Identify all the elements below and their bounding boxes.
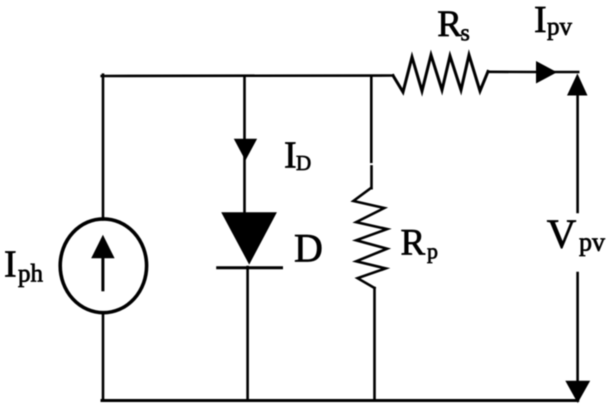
svg-text:I: I bbox=[284, 135, 297, 177]
svg-text:pv: pv bbox=[579, 228, 605, 257]
wire V_pv lower segment bbox=[576, 273, 579, 382]
svg-text:ph: ph bbox=[18, 260, 44, 287]
wire R_p branch lower bbox=[373, 288, 376, 401]
svg-text:R: R bbox=[401, 223, 426, 264]
svg-text:p: p bbox=[427, 239, 438, 264]
arrowhead I_D current direction bbox=[234, 139, 257, 161]
current source arrow shaft bbox=[101, 254, 104, 290]
svg-text:D: D bbox=[294, 226, 323, 271]
wire diode branch upper bbox=[243, 76, 246, 213]
wire bottom (return / negative rail) bbox=[102, 399, 578, 402]
resistor R_s bbox=[393, 55, 488, 92]
svg-text:pv: pv bbox=[547, 14, 573, 41]
wire arrow to top-right corner bbox=[555, 71, 578, 74]
diode D cathode bar bbox=[218, 266, 282, 269]
wire diode branch lower bbox=[246, 267, 249, 401]
arrowhead I_pv current direction bbox=[536, 61, 557, 84]
svg-text:R: R bbox=[437, 4, 462, 45]
wire top (node between Iph, D, Rp and Rs left) bbox=[102, 74, 393, 77]
wire left upper (top node to current source) bbox=[102, 75, 105, 220]
svg-text:I: I bbox=[4, 244, 17, 286]
arrowhead V_pv top (up) bbox=[567, 74, 588, 96]
diode D triangle (anode) bbox=[221, 212, 277, 264]
wire R_p branch upper (with scan break) bbox=[370, 76, 373, 188]
wire V_pv upper segment bbox=[576, 94, 579, 212]
resistor R_p bbox=[353, 188, 387, 288]
arrowhead V_pv bottom (down) bbox=[565, 381, 590, 403]
wire left lower (current source to bottom rail) bbox=[102, 313, 105, 401]
svg-text:I: I bbox=[534, 0, 547, 41]
current source arrowhead (up) bbox=[91, 235, 114, 259]
svg-text:D: D bbox=[296, 151, 311, 175]
current source I_ph (circle) bbox=[60, 219, 146, 313]
wire R_s to I_pv arrow bbox=[488, 71, 537, 74]
svg-text:V: V bbox=[547, 210, 577, 256]
svg-text:s: s bbox=[461, 21, 470, 47]
